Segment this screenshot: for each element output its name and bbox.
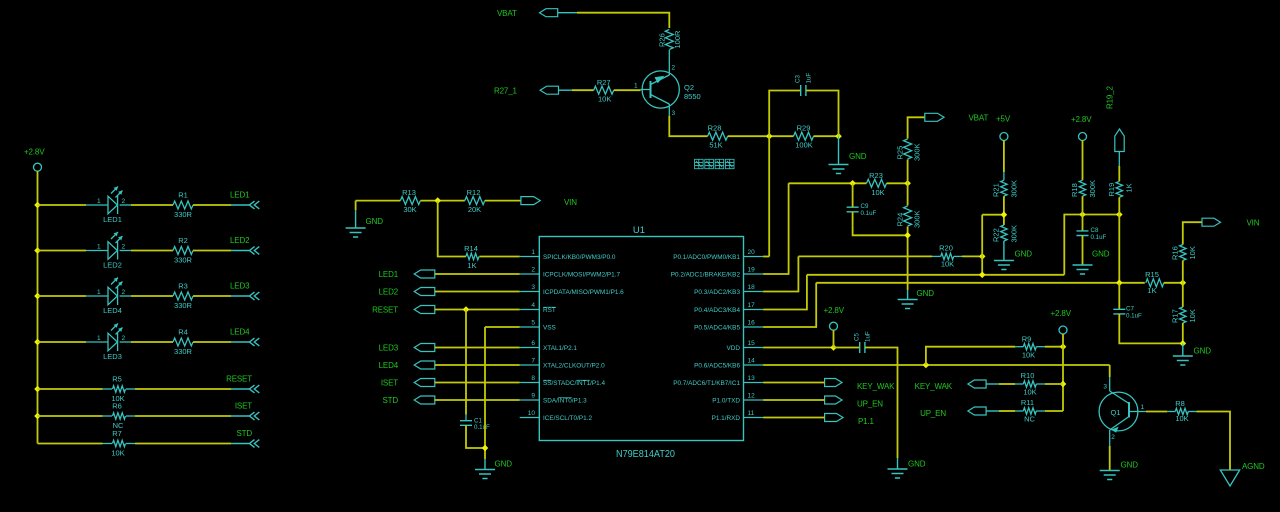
svg-text:13: 13 [748, 375, 756, 382]
svg-text:ICPCLK/MOSI/PWM2/P1.7: ICPCLK/MOSI/PWM2/P1.7 [543, 271, 621, 278]
svg-text:+2.8V: +2.8V [1051, 309, 1072, 318]
wire pin18 riser to R20 row [763, 256, 798, 291]
wire R8 to AGND [1197, 412, 1231, 471]
wire R13 to R12 [420, 200, 464, 202]
wire R23 to R24/R25 [887, 182, 908, 184]
junction R9 rail [1060, 343, 1067, 350]
svg-text:300K: 300K [1009, 180, 1018, 198]
svg-text:330R: 330R [174, 210, 193, 219]
transistor Q2 8550 [641, 68, 680, 116]
svg-text:10K: 10K [111, 449, 124, 458]
svg-text:GND: GND [366, 217, 384, 226]
junction R20 tap [979, 253, 986, 260]
svg-text:1K: 1K [1147, 286, 1156, 295]
wire R16 up to VIN port [1183, 222, 1202, 244]
net chevron LED4 [250, 338, 260, 346]
svg-text:2: 2 [1111, 434, 1115, 441]
svg-text:1: 1 [97, 289, 101, 296]
svg-text:+2.8V: +2.8V [24, 148, 45, 157]
U1 pin 20 stub [744, 256, 764, 258]
wire R24 bottom loop to C9 [853, 225, 908, 235]
resistor R7 [113, 440, 126, 446]
resistor R10 [1023, 381, 1036, 387]
wire bus to LED2 [38, 250, 87, 252]
port RESET [414, 306, 435, 314]
R5 left lead [103, 388, 113, 390]
svg-text:UP_EN: UP_EN [920, 409, 946, 418]
wire RESET junction down to C1 [465, 310, 467, 415]
wire VSS down to ground [484, 327, 486, 459]
svg-text:20K: 20K [468, 205, 481, 214]
R7 left lead [103, 443, 113, 445]
R11 right lead [1036, 410, 1045, 412]
svg-text:R16: R16 [1170, 246, 1179, 260]
wire +2.8V to VDD rail [833, 330, 835, 347]
svg-text:ISET: ISET [381, 379, 398, 388]
annotation text (chinese) [695, 159, 735, 168]
svg-text:GND: GND [1092, 250, 1110, 259]
ground R24 node [898, 300, 918, 309]
resistor R14 [466, 253, 479, 259]
net lead LED2 [231, 250, 250, 252]
ground VSS [475, 470, 495, 479]
svg-text:P0.6/ADC5/KB6: P0.6/ADC5/KB6 [694, 362, 740, 369]
ground C8 [1073, 265, 1093, 274]
wire R2 to net LED2 [193, 250, 231, 252]
junction R17 C7 GND [1180, 340, 1187, 347]
resistor R28 [708, 132, 728, 140]
power +2.8V symbol pullup [1059, 326, 1067, 334]
wire pin14 row long [763, 364, 1110, 366]
svg-text:R24: R24 [896, 213, 905, 227]
junction bus row R6 [34, 413, 41, 420]
svg-text:R14: R14 [464, 244, 478, 253]
svg-text:GND: GND [1015, 250, 1033, 259]
port ISET [414, 379, 435, 387]
R5 right lead [126, 388, 135, 390]
svg-text:300K: 300K [913, 143, 922, 161]
wire R7 to net STD [135, 443, 231, 445]
port VBAT [540, 9, 558, 17]
R9 right lead [1036, 346, 1045, 348]
svg-text:C9: C9 [861, 203, 869, 210]
svg-text:LED4: LED4 [379, 361, 399, 370]
svg-text:7: 7 [531, 358, 535, 365]
svg-text:2: 2 [122, 289, 126, 296]
port VIN mid [521, 197, 540, 205]
GND lead R17 [1182, 343, 1184, 355]
wire Q1 base to R8 [1146, 411, 1167, 413]
svg-text:100K: 100K [795, 141, 813, 150]
svg-text:R9: R9 [1022, 335, 1032, 344]
svg-text:300K: 300K [913, 210, 922, 228]
R8 left lead [1167, 411, 1175, 413]
svg-text:GND: GND [917, 289, 935, 298]
svg-text:1: 1 [97, 243, 101, 250]
svg-text:1K: 1K [1125, 183, 1134, 192]
svg-text:STD: STD [382, 396, 398, 405]
wire R9 to +2.8V rail [1045, 346, 1063, 348]
R7 right lead [126, 443, 135, 445]
svg-text:2: 2 [531, 267, 535, 274]
wire STD to pin 9 [435, 399, 520, 401]
wire C7 bottom to ground row [1119, 314, 1183, 344]
net chevron ISET [250, 412, 260, 420]
wire C3 right to junction [806, 91, 838, 137]
svg-text:RESET: RESET [226, 375, 252, 384]
wire port to R19 [1118, 166, 1120, 181]
svg-text:0.1uF: 0.1uF [474, 424, 490, 431]
wire VDD pin15 [763, 347, 833, 349]
resistor R27 [594, 86, 614, 94]
capacitor C3 [801, 85, 806, 96]
U1 pin 3 stub [520, 291, 540, 293]
wire up to C3 left [769, 91, 800, 137]
junction VSS C1 GND [482, 445, 489, 452]
GND lead R13 [355, 210, 357, 227]
wire R18 to C8 [1082, 196, 1084, 231]
wire R27_1 to R27 [572, 89, 594, 91]
wire junction down to R14 [438, 201, 466, 257]
svg-text:GND: GND [1121, 461, 1139, 470]
svg-text:VIN: VIN [564, 198, 577, 207]
svg-text:R4: R4 [178, 328, 188, 337]
junction R21 R22 tap [1001, 211, 1008, 218]
wire +2.8V to R18 [1082, 141, 1084, 181]
U1 pin 1 stub [520, 256, 540, 258]
svg-text:RST: RST [543, 307, 556, 314]
net lead LED4 [231, 341, 250, 343]
U1 pin 17 stub [744, 309, 764, 311]
resistor R20 [941, 253, 954, 259]
wire up to R18 node row [1064, 215, 1119, 275]
wire R18 node down to divider row [1118, 215, 1120, 283]
U1 pin 11 stub [744, 417, 764, 419]
svg-text:P1.1: P1.1 [858, 417, 875, 426]
svg-text:P0.2/ADC1/BRAKE/KB2: P0.2/ADC1/BRAKE/KB2 [671, 271, 741, 278]
Q1 collector lead [1109, 377, 1111, 391]
U1 pin 9 stub [520, 399, 540, 401]
UP_EN port lead [986, 410, 999, 412]
wire C1 to GND junction [466, 425, 485, 448]
R11 left lead [1015, 410, 1023, 412]
svg-text:R26: R26 [657, 33, 666, 47]
U1 pin 16 stub [744, 326, 764, 328]
junction bus row 1 [34, 202, 41, 209]
svg-text:100R: 100R [673, 30, 682, 49]
R6 left lead [103, 415, 113, 417]
LED2 cathode lead [120, 250, 131, 252]
resistor R18 [1079, 180, 1085, 196]
svg-text:R6: R6 [112, 402, 122, 411]
wire R12 to VIN port [485, 200, 521, 202]
wire KEY_WAK to R10 [999, 383, 1015, 385]
resistor R26 [665, 30, 673, 50]
svg-text:VDD: VDD [727, 345, 741, 352]
wire riser to R9 [926, 347, 1015, 365]
resistor R29 [794, 132, 814, 140]
svg-text:R29: R29 [797, 123, 811, 132]
power +2.8V symbol right [1079, 133, 1087, 141]
svg-text:0.1uF: 0.1uF [861, 210, 877, 217]
wire C5 to ground [865, 348, 897, 459]
svg-text:R18: R18 [1070, 183, 1079, 197]
wire R4 to net LED4 [193, 341, 231, 343]
wire ISET to pin 8 [435, 382, 520, 384]
svg-text:ICPDATA/MISO/PWM1/P1.6: ICPDATA/MISO/PWM1/P1.6 [543, 289, 624, 296]
wire junction to R24 [907, 183, 909, 205]
junction VDD +2.8V [830, 344, 837, 351]
wire pin13 to port [763, 382, 825, 384]
svg-text:Q1: Q1 [1111, 408, 1121, 417]
wire pin16 riser to VIN divider row [763, 283, 816, 327]
wire pin12 to port [763, 399, 825, 401]
IC U1 N79E814AT20 body [539, 237, 743, 441]
capacitor C9 [847, 207, 859, 212]
wire tap vertical [981, 215, 983, 275]
junction R18 C8 [1079, 211, 1086, 218]
wire LED3 to pin 6 [435, 347, 520, 349]
svg-text:LED4: LED4 [230, 328, 250, 337]
svg-text:3: 3 [672, 110, 676, 117]
port UP_EN [825, 396, 842, 404]
U1 pin 14 stub [744, 364, 764, 366]
svg-text:RESET: RESET [372, 306, 398, 315]
transistor Q1 [1099, 391, 1146, 446]
svg-text:51K: 51K [709, 141, 722, 150]
svg-text:R8: R8 [1175, 399, 1185, 408]
wire junction down to P0.1 pin20 [768, 136, 770, 256]
junction R13/R12/R14 [434, 197, 441, 204]
svg-text:SDA/INT0/P1.3: SDA/INT0/P1.3 [543, 397, 587, 404]
svg-text:GND: GND [495, 460, 513, 469]
port KEY_WAK [825, 379, 842, 387]
resistor R1 [173, 201, 193, 209]
svg-text:ICE/SCL/T0/P1.2: ICE/SCL/T0/P1.2 [543, 415, 592, 422]
wire R5 to net RESET [135, 388, 231, 390]
svg-text:P0.3/ADC2/KB3: P0.3/ADC2/KB3 [694, 289, 740, 296]
svg-text:LED4: LED4 [103, 306, 122, 315]
wire R14 to pin1 [479, 256, 519, 258]
svg-text:R25: R25 [896, 146, 905, 160]
junction R19 bottom [1116, 211, 1123, 218]
svg-text:N79E814AT20: N79E814AT20 [616, 448, 675, 460]
wire C9 bottom lead [852, 212, 854, 226]
LED1 anode lead [86, 204, 108, 206]
LED LED4 [108, 278, 123, 306]
resistor R19 [1116, 181, 1122, 197]
R20 right lead [954, 255, 962, 257]
svg-text:VSS: VSS [543, 324, 556, 331]
svg-text:LED3: LED3 [379, 344, 399, 353]
svg-text:30K: 30K [403, 205, 416, 214]
junction bus row 3 [34, 293, 41, 300]
svg-text:U1: U1 [633, 225, 645, 236]
net chevron LED3 [250, 292, 260, 300]
LED LED3 [108, 324, 123, 352]
wire +2.8V bus vertical [37, 171, 39, 443]
U1 pin 10 stub [520, 417, 540, 419]
svg-text:P0.1/ADC0/PWM0/KB1: P0.1/ADC0/PWM0/KB1 [673, 254, 740, 261]
net lead RESET [231, 388, 250, 390]
svg-text:2: 2 [122, 198, 126, 205]
port LED2 [414, 288, 435, 296]
port VBAT right [925, 113, 944, 121]
svg-text:18: 18 [748, 284, 756, 291]
svg-text:P1.1/RXD: P1.1/RXD [712, 415, 741, 422]
net lead LED1 [231, 204, 250, 206]
R20 left lead [932, 255, 941, 257]
port LED3 [414, 344, 435, 352]
wire pin19 riser to R23 row [763, 183, 789, 274]
junction RESET C1 [463, 306, 470, 313]
port VIN right [1202, 218, 1221, 226]
svg-text:330R: 330R [174, 347, 193, 356]
svg-text:C3: C3 [795, 75, 802, 83]
svg-text:UP_EN: UP_EN [857, 400, 883, 409]
svg-text:R19: R19 [1107, 183, 1116, 197]
svg-text:3: 3 [1103, 384, 1107, 391]
svg-text:R5: R5 [112, 375, 122, 384]
U1 pin 18 stub [744, 291, 764, 293]
svg-text:0.1uF: 0.1uF [1126, 313, 1142, 320]
wire LED4 to pin 7 [435, 364, 520, 366]
Q2 collector pin lead [668, 50, 670, 68]
wire pin14 down to Q1 [1109, 365, 1111, 377]
resistor R24 [904, 206, 912, 226]
junction bus row 2 [34, 247, 41, 254]
svg-text:KEY_WAK: KEY_WAK [857, 382, 895, 391]
resistor R13 [400, 197, 420, 205]
ground VIN divider [1173, 356, 1193, 365]
svg-text:6: 6 [531, 340, 535, 347]
wire R10 to rail [1045, 383, 1063, 385]
LED4 cathode lead [120, 295, 131, 297]
svg-text:R17: R17 [1170, 309, 1179, 323]
svg-text:LED2: LED2 [379, 288, 399, 297]
wire R16 to junction [1182, 261, 1184, 283]
svg-text:R22: R22 [992, 228, 1001, 242]
ground R22 [994, 261, 1014, 270]
svg-text:16: 16 [748, 320, 756, 327]
resistor R11 [1023, 408, 1036, 414]
power +2.8V symbol VDD [830, 322, 838, 330]
wire bus to R6 [38, 415, 103, 417]
wire R25 up to port [908, 117, 925, 138]
wire R28 to R29 [728, 135, 794, 137]
svg-text:C5: C5 [854, 333, 861, 341]
svg-text:330R: 330R [174, 256, 193, 265]
junction R24 C9 GND [904, 232, 911, 239]
net chevron LED2 [250, 247, 260, 255]
svg-text:R27: R27 [597, 78, 611, 87]
resistor R3 [173, 292, 193, 300]
resistor R5 [113, 386, 126, 392]
svg-text:LED2: LED2 [230, 236, 250, 245]
svg-text:R1: R1 [178, 191, 188, 200]
LED3 cathode lead [120, 341, 131, 343]
svg-text:R7: R7 [112, 429, 122, 438]
svg-text:R28: R28 [708, 123, 722, 132]
svg-text:0.1uF: 0.1uF [1091, 234, 1107, 241]
wire pin18 row to R20 [798, 255, 932, 257]
U1 pin 6 stub [520, 347, 540, 349]
junction bus row 4 [34, 339, 41, 346]
resistor R25 [904, 139, 912, 159]
wire GND to R13 [356, 200, 401, 202]
LED4 anode lead [86, 295, 108, 297]
wire pin11 to port [763, 417, 825, 419]
C1 top lead [465, 415, 467, 421]
wire C8 to ground [1082, 236, 1084, 265]
power +2.8V symbol [34, 163, 42, 171]
svg-text:VIN: VIN [1247, 219, 1260, 228]
wire bus to R7 [38, 443, 103, 445]
svg-text:R15: R15 [1145, 270, 1159, 279]
svg-text:GND: GND [849, 152, 867, 161]
wire rail to R11 [1045, 410, 1063, 412]
wire C9 top lead [852, 183, 854, 207]
capacitor C1 [460, 421, 472, 426]
svg-text:10K: 10K [1175, 414, 1188, 423]
svg-text:10K: 10K [871, 188, 884, 197]
R10 right lead [1036, 383, 1045, 385]
svg-text:12: 12 [748, 393, 756, 400]
U1 pin 8 stub [520, 382, 540, 384]
svg-text:+2.8V: +2.8V [824, 306, 845, 315]
wire bus to LED4 [38, 295, 87, 297]
wire R27 to Q2 base [614, 89, 641, 91]
wire LED1 to pin 2 [435, 273, 520, 275]
port LED1 [414, 270, 435, 278]
svg-text:P0.4/ADC3/KB4: P0.4/ADC3/KB4 [694, 307, 740, 314]
svg-text:1uF: 1uF [806, 73, 813, 84]
ground battery detect [829, 165, 849, 174]
wire pin17 riser [763, 275, 807, 310]
resistor R22 [1001, 225, 1007, 241]
svg-text:KEY_WAK: KEY_WAK [915, 382, 953, 391]
svg-text:LED3: LED3 [103, 352, 122, 361]
svg-text:STD: STD [236, 429, 252, 438]
svg-text:C7: C7 [1126, 306, 1134, 313]
junction R28/R29/C3/P0.1 [766, 133, 773, 140]
LED3 anode lead [86, 341, 108, 343]
wire bus to LED3 [38, 341, 87, 343]
U1 pin 19 stub [744, 273, 764, 275]
wire R6 to net ISET [135, 415, 231, 417]
U1 pin 13 stub [744, 382, 764, 384]
resistor R17 [1180, 307, 1186, 323]
GND lead battery detect [838, 136, 840, 164]
svg-text:300K: 300K [1088, 180, 1097, 198]
svg-text:1: 1 [97, 335, 101, 342]
U1 pin 2 stub [520, 273, 540, 275]
wire R21 to R22 [1003, 196, 1005, 225]
R10 left lead [1015, 383, 1023, 385]
wire VDD to C5 [834, 347, 860, 349]
junction R15 R16 R17 [1180, 280, 1187, 287]
R6 right lead [126, 415, 135, 417]
svg-text:3: 3 [531, 284, 535, 291]
net chevron RESET [250, 385, 260, 393]
svg-text:8: 8 [531, 375, 535, 382]
svg-text:10K: 10K [1023, 387, 1036, 396]
svg-text:+2.8V: +2.8V [1071, 115, 1092, 124]
wire R17 to ground row [1182, 323, 1184, 343]
junction R23 R24 R25 [904, 180, 911, 187]
svg-text:R27_1: R27_1 [494, 87, 518, 96]
svg-text:P1.0/TXD: P1.0/TXD [712, 397, 740, 404]
